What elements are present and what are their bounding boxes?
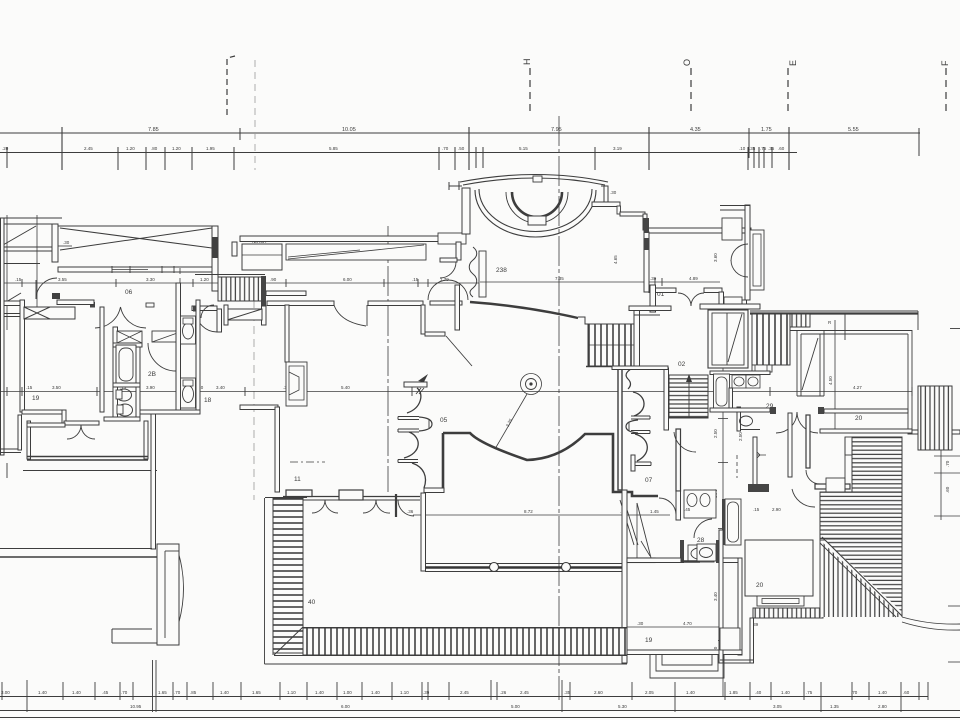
radius line: [495, 394, 527, 449]
left dim chain x=7: [6, 215, 8, 330]
porch dim line y=515: [413, 514, 670, 516]
bath closet with X: [117, 331, 142, 343]
svg-text:6.00: 6.00: [343, 277, 352, 282]
svg-text:1.40: 1.40: [781, 690, 790, 695]
main center axis x=559: [558, 116, 560, 700]
window column left: [479, 251, 486, 297]
diagonal room SW: [1, 293, 21, 305]
stair right wall dark: [261, 276, 266, 306]
ramp rect vertical walls: [796, 330, 798, 396]
closet row with X top of room19: [24, 307, 75, 319]
2B door arc: [148, 343, 176, 371]
terrace divider x=845: [844, 314, 846, 340]
4.50 vertical dim: [828, 376, 833, 385]
svg-text:2.05: 2.05: [645, 690, 654, 695]
jog wall x=632: [631, 455, 635, 471]
mid pier: [339, 490, 363, 500]
room 19 south wall: [627, 650, 742, 655]
wall y=334 stub: [425, 332, 445, 336]
hall north curved wall: [470, 302, 578, 318]
svg-text:1.20: 1.20: [126, 146, 135, 151]
sinks 29: [732, 375, 746, 388]
door arc room 18 left: [196, 311, 217, 332]
hall south curved wall bold: [443, 433, 658, 496]
deep double arc bay wall: [475, 190, 596, 237]
dim line A: [0, 132, 920, 134]
svg-text:F: F: [940, 60, 950, 66]
axis dash mark: [290, 461, 325, 463]
porch column east: [562, 563, 571, 572]
terrace east wall: [907, 334, 909, 430]
NE vertical-tread stair: [918, 386, 952, 450]
corridor south wall right y=291: [266, 291, 306, 296]
svg-text:2.45: 2.45: [84, 146, 93, 151]
svg-text:1.65: 1.65: [252, 690, 261, 695]
svg-text:238: 238: [496, 267, 507, 274]
svg-text:3.40: 3.40: [713, 592, 718, 601]
svg-text:05: 05: [440, 417, 448, 424]
room 01 south wall: [649, 288, 676, 293]
svg-text:O: O: [682, 59, 692, 66]
.30 tick NW: [58, 245, 72, 247]
room 19 top wall right segment: [720, 558, 738, 563]
wall x=423 down: [421, 305, 425, 334]
right pier step: [601, 186, 608, 202]
svg-text:.70: .70: [945, 460, 950, 467]
right boundary: [901, 437, 903, 617]
svg-text:2B: 2B: [148, 371, 156, 378]
butterfly door up: [428, 280, 448, 300]
small room above stairs: [242, 244, 282, 270]
double tick: [416, 388, 421, 394]
svg-text:11: 11: [294, 476, 301, 483]
room18 door arc: [201, 305, 214, 318]
small room inner line: [242, 254, 282, 256]
axis letter H: [522, 59, 532, 66]
svg-text:8.72: 8.72: [524, 509, 533, 514]
hall east wall dark: [618, 368, 622, 490]
vertical tub 28: [725, 499, 741, 545]
WC1: [181, 316, 196, 344]
outer margin lines: [264, 498, 266, 664]
room 19 lower label: [645, 637, 653, 644]
svg-text:3.00: 3.00: [1, 690, 10, 695]
svg-text:7.35: 7.35: [555, 276, 564, 281]
svg-text:1.75: 1.75: [761, 127, 772, 133]
jamb stub right of door: [146, 303, 154, 307]
svg-text:10.95: 10.95: [130, 704, 142, 709]
fan diagonal: [822, 537, 902, 616]
corridor south wall mid: [57, 300, 94, 305]
.30 tiny: [823, 496, 830, 501]
svg-text:1.40: 1.40: [72, 690, 81, 695]
niche thin outer arc: [506, 192, 568, 223]
door arc SW of bay: [440, 262, 456, 278]
svg-text:.45: .45: [684, 507, 691, 512]
room19 lower: interior dim y=627: [627, 626, 720, 628]
svg-text:5.40: 5.40: [341, 385, 350, 390]
vestibule west wall x=625: [622, 490, 627, 663]
axis letter F: [940, 60, 950, 66]
svg-text:4.35: 4.35: [690, 127, 701, 133]
room 02 label: [678, 361, 686, 368]
east wall NE block x=212: [212, 226, 218, 291]
corridor south wall segments: [267, 301, 334, 306]
step wall: [62, 410, 66, 424]
chain line D: [0, 696, 928, 698]
room 20 south wall: [820, 429, 912, 433]
corridor wall right part: [430, 301, 462, 305]
lower fan field: [820, 492, 902, 540]
dark jamb left of corridor door: [90, 302, 95, 308]
terrace east wall: [144, 421, 148, 459]
main stair room 02: [669, 375, 708, 418]
svg-text:.80: .80: [151, 146, 158, 151]
svg-text:1.40: 1.40: [38, 690, 47, 695]
wall x=456 upper (room 238 west): [456, 242, 461, 260]
shallow top double arc: [460, 175, 608, 183]
axis x=254 dashed faint: [253, 300, 255, 500]
bath east wall x=136: [136, 344, 140, 420]
ladder band: [753, 608, 823, 618]
svg-text:1.10: 1.10: [287, 690, 296, 695]
svg-text:.30: .30: [610, 190, 617, 195]
room 02 top wall: [629, 306, 671, 311]
2.50 vertical dim: [738, 432, 743, 441]
wall x=720 down: [719, 292, 724, 330]
small wall x=755: [753, 437, 757, 487]
svg-text:2.45: 2.45: [520, 690, 529, 695]
dark bath walls: [680, 540, 684, 563]
courtyard 40 label: [308, 599, 316, 606]
axis letter O: [682, 59, 692, 66]
step rects below treads: [752, 365, 772, 372]
east tick: [950, 328, 960, 330]
room 2B label: [148, 371, 156, 378]
wall x=196: [196, 300, 200, 412]
axis x=835: [834, 320, 836, 430]
svg-text:3.60: 3.60: [713, 253, 718, 262]
room 02 west wall: [664, 368, 669, 430]
dashed axis x=180: [179, 268, 181, 352]
4.65 vertical dim text: [613, 255, 618, 264]
svg-text:3.40: 3.40: [216, 385, 225, 390]
svg-text:1.65: 1.65: [158, 690, 167, 695]
jamb x=217: [217, 309, 222, 332]
window jamb ticks: [111, 266, 113, 273]
room 11 west wall upper: [285, 305, 289, 362]
long ticks crossing both lines: [61, 127, 63, 170]
left walls of room20 lower block: [719, 530, 723, 663]
svg-text:1.00: 1.00: [343, 690, 352, 695]
wall y=366: [612, 366, 668, 370]
small pier bold: [395, 494, 397, 517]
wavy wall top bar: [404, 382, 427, 387]
svg-text:.85: .85: [190, 690, 197, 695]
svg-text:1.40: 1.40: [315, 690, 324, 695]
diagonal door leaf into hall: [446, 336, 472, 366]
svg-text:.39: .39: [423, 690, 430, 695]
right cusp bar 3: [632, 462, 651, 466]
wall x=806 stair side: [806, 415, 810, 468]
central circle ornament: [521, 374, 542, 395]
svg-text:.70: .70: [851, 690, 858, 695]
door arc south 20: [792, 489, 815, 507]
stair arrow: [688, 380, 690, 418]
courtyard west wall x=152: [151, 414, 156, 549]
courtyard north wall y=548: [0, 548, 152, 550]
room 11 label: [294, 476, 301, 483]
step down: [617, 206, 621, 214]
sink room fixture: [697, 544, 716, 561]
svg-text:H: H: [522, 59, 532, 66]
dim texts row A: [148, 127, 859, 133]
svg-text:3.19: 3.19: [613, 146, 622, 151]
inner room rect NE: [722, 218, 742, 240]
corner door arc: [398, 500, 414, 516]
svg-text:1.45: 1.45: [650, 509, 659, 514]
bath south wall: [104, 417, 140, 421]
dashed axis x=737: [736, 455, 738, 478]
svg-text:.15: .15: [15, 277, 22, 282]
svg-text:3.55: 3.55: [58, 277, 67, 282]
svg-text:1.40: 1.40: [686, 690, 695, 695]
porch column west: [490, 563, 499, 572]
niche tab: [528, 216, 546, 225]
corridor north wall y=236: [240, 236, 462, 242]
svg-text:.15: .15: [26, 385, 33, 390]
dim ticks y391: [7, 387, 912, 396]
svg-text:.70: .70: [121, 690, 128, 695]
ticks line B: [6, 147, 8, 168]
svg-text:.60: .60: [945, 486, 950, 493]
corridor 06 label: [125, 289, 133, 296]
svg-text:1.40: 1.40: [220, 690, 229, 695]
pier dark: [644, 218, 650, 233]
room 05 label: [440, 417, 448, 424]
svg-text:.60: .60: [903, 690, 910, 695]
right wavy scallop 2: [635, 434, 647, 461]
stair down to hall: [588, 324, 634, 366]
top wall north block: [0, 217, 62, 219]
svg-text:4.27: 4.27: [853, 385, 862, 390]
terrace double door arcs: [67, 425, 81, 439]
svg-text:.35: .35: [768, 146, 775, 151]
terrace south wall double dark: [27, 456, 148, 458]
diagonal brace room NW: [3, 226, 36, 245]
inner niche bold semicircle: [512, 192, 562, 217]
svg-text:.36: .36: [407, 509, 414, 514]
ticks line A only: [239, 128, 241, 140]
pier: [770, 407, 776, 414]
right edge ticks lower: [948, 605, 960, 607]
step rect below: [757, 596, 804, 606]
door arc under stair: [674, 432, 696, 452]
cusp bar 2: [398, 429, 419, 432]
dim texts row B: [2, 146, 785, 151]
west bay bow arc: [179, 555, 184, 622]
wall y=259 stub: [440, 258, 457, 262]
axis H dashed line: [529, 68, 531, 114]
svg-text:.35: .35: [749, 146, 756, 151]
dim line y=282 inside: [480, 281, 720, 283]
texts row D: [1, 690, 910, 695]
room 29 label: [766, 403, 774, 410]
svg-text:1.10: 1.10: [400, 690, 409, 695]
wall x=680 down: [676, 491, 681, 520]
hall 20 north wall y=409: [710, 408, 770, 412]
canopy strip with diagonals: [286, 244, 426, 260]
vertical band horizontal treads: [273, 498, 303, 653]
svg-text:.35: .35: [564, 690, 571, 695]
interior dim line y=391 full width: [0, 391, 912, 393]
butterfly door south: [678, 293, 691, 306]
apex tab: [533, 176, 542, 182]
svg-text:2.50: 2.50: [713, 429, 718, 438]
north wall y=228: [647, 228, 751, 233]
wall x=225 below stairs: [224, 305, 228, 325]
svg-text:20: 20: [855, 415, 863, 422]
svg-text:2.45: 2.45: [460, 690, 469, 695]
horizontal band vertical treads: [303, 628, 627, 655]
room 11 south wall line: [283, 496, 420, 498]
svg-text:.39: .39: [650, 276, 657, 281]
svg-text:1.35: 1.35: [830, 704, 839, 709]
svg-text:1.40: 1.40: [878, 690, 887, 695]
terrace north parapet dark: [750, 310, 918, 312]
porch west post: [421, 493, 426, 571]
svg-text:4.89: 4.89: [689, 276, 698, 281]
svg-text:2.50: 2.50: [738, 432, 743, 441]
fan triangle vertical: [820, 540, 902, 617]
west wall x=645: [644, 232, 649, 292]
step notch left of bay: [112, 628, 152, 630]
window sill in facade: [112, 269, 148, 271]
wall x=752 down: [750, 618, 754, 663]
corridor door arc: [36, 278, 57, 299]
right knob pointing left: [626, 420, 638, 433]
svg-text:5.15: 5.15: [519, 146, 528, 151]
svg-text:4.50: 4.50: [828, 376, 833, 385]
vestibule rect: [724, 297, 742, 326]
svg-text:10.05: 10.05: [342, 127, 356, 133]
door arc hall SE: [659, 498, 676, 515]
interior dim y=512 texts: [684, 507, 781, 512]
svg-text:2.90: 2.90: [772, 507, 781, 512]
wall y=560 right of vestibule: [627, 558, 655, 563]
axis E dashed line: [787, 68, 789, 114]
svg-text:1.20: 1.20: [200, 277, 209, 282]
bathroom 28: [684, 490, 716, 518]
closet 2 with diagonal: [152, 331, 183, 342]
room19/bath divider x=100: [100, 307, 104, 412]
WC room small: [737, 407, 741, 431]
room top edge y=226: [58, 225, 212, 227]
shaft between 02 and 29: [708, 310, 748, 368]
svg-text:.15: .15: [412, 277, 419, 282]
corridor dim line y=283: [0, 282, 480, 284]
svg-text:06: 06: [125, 289, 133, 296]
knob right: [419, 417, 432, 431]
left pier: [449, 181, 462, 190]
left wavy scallop 3: [412, 463, 426, 488]
wall stub x=232 above: [232, 242, 237, 256]
landing steps small rects: [845, 437, 852, 455]
axis letter G hook: [227, 56, 235, 115]
stair stringer diagonal: [637, 503, 651, 558]
room20 west wall x=790: [788, 413, 792, 477]
svg-text:19: 19: [32, 395, 40, 402]
right wavy small S top: [626, 369, 631, 389]
axis x=388: [387, 226, 389, 492]
bathtub 29: [714, 374, 730, 409]
mid wall y=248: [0, 246, 58, 248]
shaft top wall: [700, 304, 760, 309]
pier dark 2: [644, 238, 649, 250]
svg-text:.75: .75: [760, 146, 767, 151]
K door mark: [753, 448, 766, 462]
svg-text:2.80: 2.80: [878, 704, 887, 709]
axis x=255 dashed faint upper: [254, 60, 256, 170]
svg-text:.60: .60: [778, 146, 785, 151]
svg-text:3.90: 3.90: [146, 385, 155, 390]
bath west wall x=113: [113, 327, 118, 420]
NW stair treads: [218, 277, 265, 301]
svg-text:28: 28: [697, 537, 705, 544]
wall segment x192-217: [192, 306, 217, 311]
stair upper left boundary: [844, 437, 846, 492]
room 238 label: [496, 267, 507, 274]
texts row E: [130, 704, 887, 709]
room 20 label: [855, 415, 863, 422]
svg-text:2.60: 2.60: [594, 690, 603, 695]
svg-text:7.95: 7.95: [551, 127, 562, 133]
svg-text:19: 19: [645, 637, 653, 644]
svg-text:6.00: 6.00: [341, 704, 350, 709]
svg-text:4.65: 4.65: [613, 255, 618, 264]
svg-text:1.20: 1.20: [172, 146, 181, 151]
28 label: [697, 537, 705, 544]
svg-text:4.70: 4.70: [683, 621, 692, 626]
svg-text:02: 02: [678, 361, 686, 368]
svg-text:18: 18: [204, 397, 212, 404]
room18 closet with diagonal: [227, 309, 262, 320]
svg-text:1.85: 1.85: [729, 690, 738, 695]
west rooms wall x=20: [20, 300, 25, 412]
door arc room 28 lower: [694, 519, 712, 538]
right wavy scallop 1: [633, 392, 644, 416]
axis letter E: [788, 60, 798, 66]
wall east of corridor x=455: [455, 285, 460, 330]
3.60 vertical dim: [713, 253, 718, 262]
right cusp bar 1: [631, 416, 650, 419]
axis x=723 dim texts: [713, 429, 718, 653]
bottom wall: [720, 659, 753, 661]
dark pier on wall: [193, 306, 199, 312]
facade wall y=268 x 58-218: [58, 267, 218, 272]
wall y=431 to east: [908, 430, 960, 434]
svg-text:.20: .20: [2, 146, 9, 151]
NE corner wall: [745, 205, 750, 300]
room 19 east wall: [738, 558, 742, 655]
room 20 lower outline: [745, 540, 813, 596]
room 19 top wall: [627, 558, 681, 563]
outer platform edge: [23, 470, 157, 472]
french door arcs 2: [363, 500, 376, 513]
svg-text:.75: .75: [806, 690, 813, 695]
room 19 label: [32, 395, 40, 402]
room 07 label: [645, 477, 653, 484]
